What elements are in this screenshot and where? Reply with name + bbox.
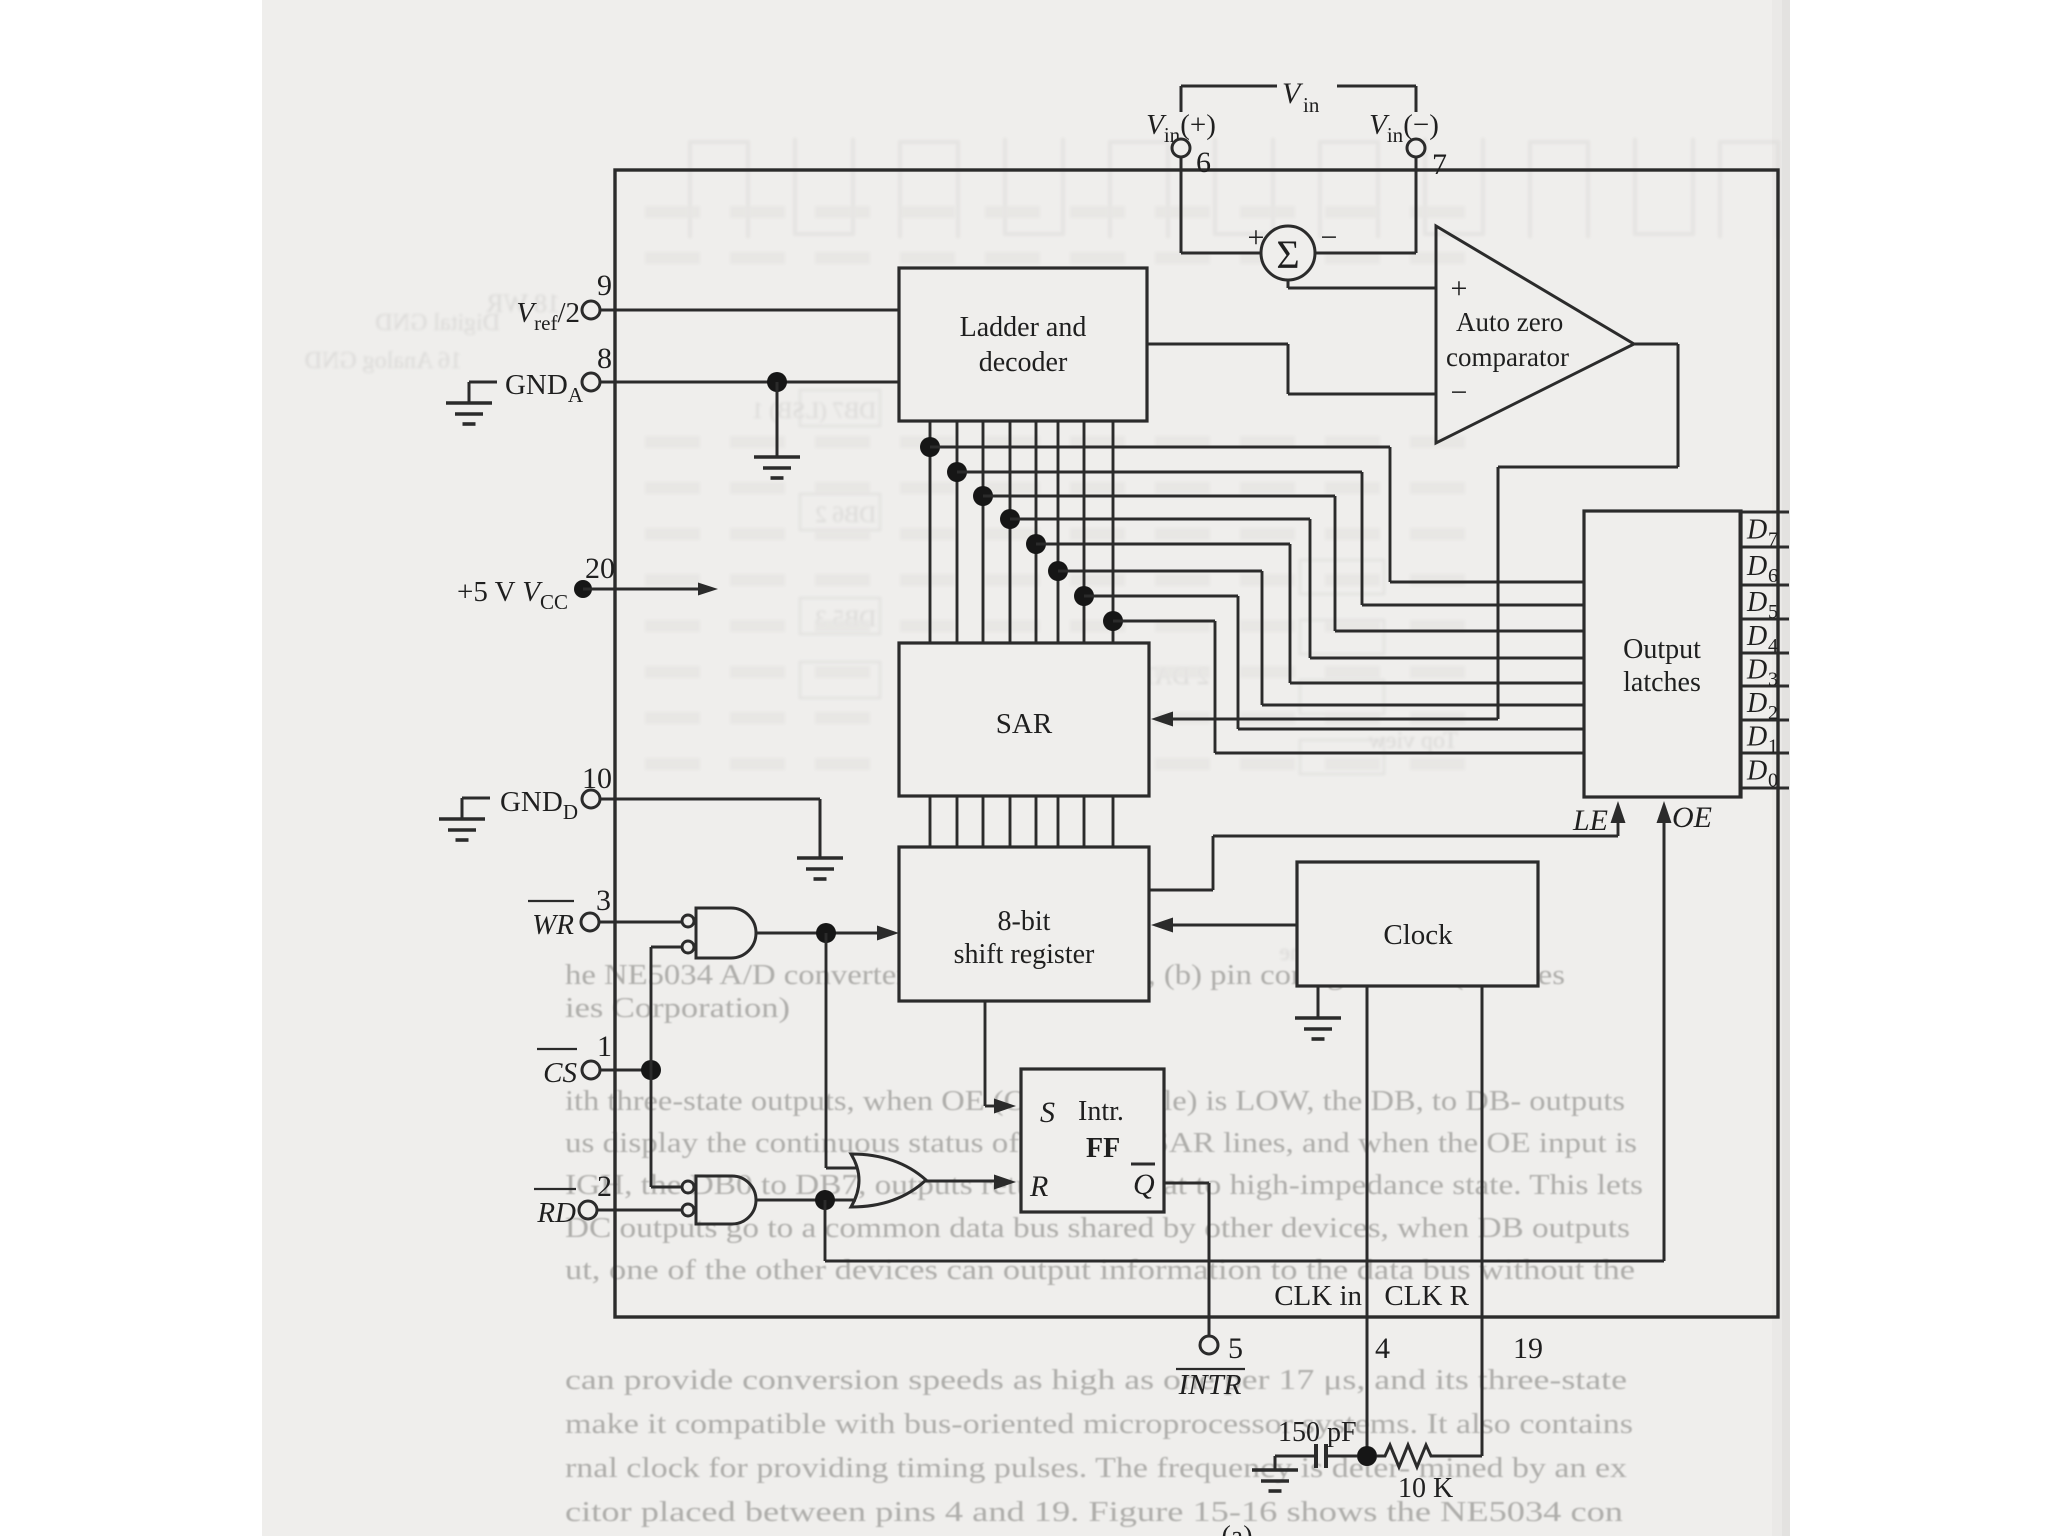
svg-text:LE: LE xyxy=(1572,804,1608,837)
svg-text:−: − xyxy=(1451,376,1468,409)
svg-text:Digital GND: Digital GND xyxy=(375,310,500,336)
svg-text:6: 6 xyxy=(1768,565,1778,587)
svg-text:2: 2 xyxy=(1768,702,1778,724)
svg-text:Output: Output xyxy=(1623,634,1701,665)
svg-text:6: 6 xyxy=(1196,146,1211,179)
svg-text:make it compatible with bus-or: make it compatible with bus-oriented mic… xyxy=(565,1409,1633,1440)
svg-text:shift register: shift register xyxy=(954,939,1095,970)
svg-text:DC outputs go to a common data: DC outputs go to a common data bus share… xyxy=(565,1213,1630,1244)
svg-text:D: D xyxy=(1746,756,1767,787)
svg-text:in: in xyxy=(1303,93,1320,117)
svg-text:S: S xyxy=(1040,1096,1055,1129)
svg-text:150 pF: 150 pF xyxy=(1278,1417,1357,1448)
svg-text:Ladder and: Ladder and xyxy=(960,312,1087,343)
svg-text:CLK R: CLK R xyxy=(1384,1280,1469,1312)
svg-text:1: 1 xyxy=(1768,736,1778,758)
svg-text:WR: WR xyxy=(532,909,574,941)
svg-text:16 Analog GND: 16 Analog GND xyxy=(305,348,462,374)
svg-text:4: 4 xyxy=(1768,635,1778,657)
svg-text:D: D xyxy=(1746,722,1767,753)
svg-text:FF: FF xyxy=(1086,1133,1120,1164)
svg-text:Q: Q xyxy=(1133,1168,1155,1201)
svg-text:D: D xyxy=(1746,688,1767,719)
svg-text:2: 2 xyxy=(597,1170,612,1203)
svg-text:7: 7 xyxy=(1432,148,1447,181)
svg-text:Auto zero: Auto zero xyxy=(1456,307,1563,337)
svg-text:CLK in: CLK in xyxy=(1274,1280,1362,1312)
svg-text:can provide conversion speeds: can provide conversion speeds as high as… xyxy=(565,1365,1627,1396)
svg-text:latches: latches xyxy=(1623,667,1701,698)
svg-text:Intr.: Intr. xyxy=(1078,1096,1124,1127)
svg-text:SAR: SAR xyxy=(996,708,1053,740)
svg-text:0: 0 xyxy=(1768,770,1778,792)
svg-text:R: R xyxy=(1029,1170,1048,1203)
svg-text:citor placed between pins 4 an: citor placed between pins 4 and 19. Figu… xyxy=(565,1497,1623,1528)
svg-text:D: D xyxy=(1746,551,1767,582)
svg-text:5: 5 xyxy=(1768,601,1778,623)
svg-text:5: 5 xyxy=(1228,1332,1243,1365)
svg-text:D: D xyxy=(1746,515,1767,546)
svg-text:(a): (a) xyxy=(1221,1521,1252,1536)
svg-text:−: − xyxy=(1321,221,1338,254)
svg-text:8: 8 xyxy=(597,342,612,375)
svg-text:10: 10 xyxy=(582,762,612,795)
svg-text:7: 7 xyxy=(1768,529,1778,551)
svg-text:+: + xyxy=(1248,221,1265,254)
svg-text:D: D xyxy=(1746,655,1767,686)
svg-text:3: 3 xyxy=(596,884,611,917)
svg-text:8-bit: 8-bit xyxy=(998,906,1051,937)
svg-text:comparator: comparator xyxy=(1446,342,1569,372)
svg-text:CS: CS xyxy=(543,1057,577,1089)
svg-text:19: 19 xyxy=(1513,1332,1543,1365)
svg-text:20: 20 xyxy=(585,552,615,585)
svg-text:INTR: INTR xyxy=(1178,1369,1242,1401)
svg-text:9: 9 xyxy=(597,269,612,302)
svg-text:decoder: decoder xyxy=(979,347,1068,378)
svg-text:DB6 2: DB6 2 xyxy=(815,502,876,527)
svg-text:D: D xyxy=(1746,621,1767,652)
svg-text:3: 3 xyxy=(1768,669,1778,691)
svg-text:rnal clock for providing timin: rnal clock for providing timing pulses. … xyxy=(565,1453,1627,1484)
svg-text:RD: RD xyxy=(536,1197,576,1229)
svg-text:Clock: Clock xyxy=(1383,919,1453,951)
svg-text:+: + xyxy=(1451,272,1468,305)
svg-text:10 K: 10 K xyxy=(1398,1473,1453,1504)
svg-text:DB7 (LSB) 1: DB7 (LSB) 1 xyxy=(752,398,876,423)
svg-text:4: 4 xyxy=(1375,1332,1390,1365)
svg-text:Σ: Σ xyxy=(1276,232,1299,277)
svg-text:Top view: Top view xyxy=(1368,728,1458,754)
svg-text:ies Corporation): ies Corporation) xyxy=(565,993,790,1024)
svg-text:D: D xyxy=(1746,587,1767,618)
svg-text:OE: OE xyxy=(1672,801,1712,834)
svg-text:1: 1 xyxy=(597,1030,612,1063)
